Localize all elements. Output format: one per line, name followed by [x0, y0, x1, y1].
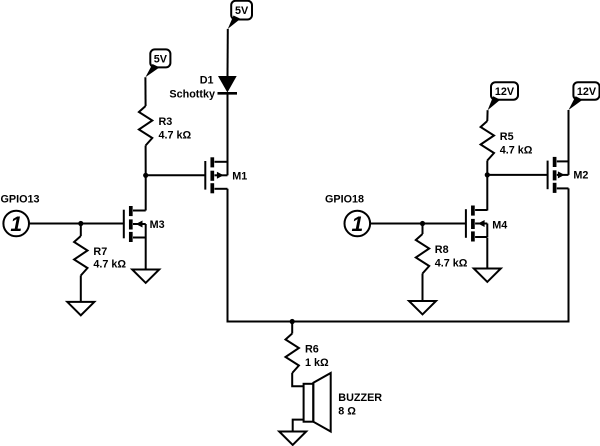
svg-text:1: 1: [10, 213, 22, 236]
svg-text:8 Ω: 8 Ω: [338, 406, 356, 418]
svg-text:12V: 12V: [495, 86, 515, 98]
svg-text:M2: M2: [573, 170, 588, 182]
svg-text:D1: D1: [200, 74, 214, 86]
svg-text:12V: 12V: [577, 86, 597, 98]
svg-text:Schottky: Schottky: [169, 89, 215, 101]
svg-text:M1: M1: [232, 170, 247, 182]
svg-text:4.7 kΩ: 4.7 kΩ: [500, 144, 533, 156]
svg-text:R3: R3: [159, 116, 173, 128]
svg-text:R7: R7: [93, 246, 107, 258]
svg-text:4.7 kΩ: 4.7 kΩ: [159, 129, 192, 141]
svg-text:GPIO18: GPIO18: [325, 194, 364, 206]
svg-text:4.7 kΩ: 4.7 kΩ: [93, 259, 126, 271]
svg-text:5V: 5V: [235, 5, 249, 17]
svg-text:GPIO13: GPIO13: [1, 194, 40, 206]
svg-text:4.7 kΩ: 4.7 kΩ: [435, 257, 468, 269]
svg-text:5V: 5V: [154, 53, 168, 65]
svg-text:BUZZER: BUZZER: [338, 392, 382, 404]
svg-text:R8: R8: [435, 244, 449, 256]
svg-text:1 kΩ: 1 kΩ: [305, 357, 329, 369]
svg-text:R6: R6: [305, 344, 319, 356]
svg-text:R5: R5: [500, 131, 514, 143]
svg-text:1: 1: [351, 213, 363, 236]
svg-text:M4: M4: [492, 220, 507, 232]
svg-text:M3: M3: [150, 219, 165, 231]
